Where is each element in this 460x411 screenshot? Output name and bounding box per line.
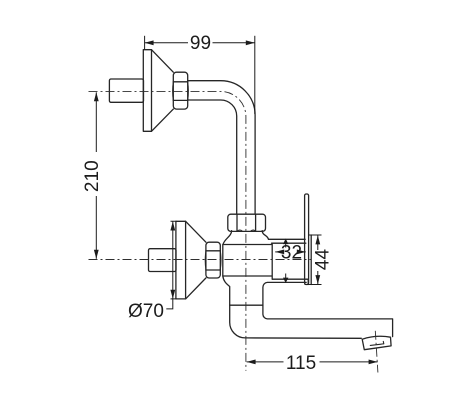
lever bar <box>305 194 309 285</box>
threaded stub upper <box>109 79 143 102</box>
dimension diameter 70 <box>166 221 176 309</box>
wall flange lower (face plate) <box>176 221 186 299</box>
box internal arrows <box>284 240 288 282</box>
dimension 210 <box>95 92 97 258</box>
cartridge box top <box>272 242 306 244</box>
svg-text:Ø70: Ø70 <box>128 301 164 322</box>
wall flange upper (face plate) <box>143 50 151 132</box>
svg-text:115: 115 <box>286 353 316 374</box>
lever plate edge <box>310 235 312 285</box>
svg-text:99: 99 <box>190 33 211 54</box>
body top plate line <box>269 238 306 240</box>
body mid box left <box>223 245 272 277</box>
dimension 32 <box>275 251 306 253</box>
centerline lower inlet <box>89 259 312 261</box>
svg-text:44: 44 <box>313 249 334 271</box>
wall flange lower (cone) <box>186 221 206 299</box>
spout boss and spout top <box>263 282 393 336</box>
threaded stub lower <box>149 249 177 272</box>
cartridge box left <box>271 243 273 279</box>
hex nut upper <box>173 72 187 109</box>
aerator tip <box>362 336 391 349</box>
wall flange upper (cone) <box>152 50 174 132</box>
body lower left edge <box>223 276 361 338</box>
cartridge box bottom <box>273 279 309 284</box>
svg-text:210: 210 <box>82 160 103 192</box>
centerlines <box>89 91 378 372</box>
body flare shoulders <box>223 231 232 245</box>
top nut on body <box>228 214 266 231</box>
dimension 44 <box>305 235 322 285</box>
centerline upper inlet <box>89 91 246 370</box>
svg-text:32: 32 <box>281 243 302 264</box>
body internal line <box>230 304 263 306</box>
hex nut lower <box>206 242 220 278</box>
centerline aerator <box>375 331 378 373</box>
dimension 99 <box>145 36 255 114</box>
dimension 115 <box>247 361 378 363</box>
pipe bend <box>188 81 255 214</box>
